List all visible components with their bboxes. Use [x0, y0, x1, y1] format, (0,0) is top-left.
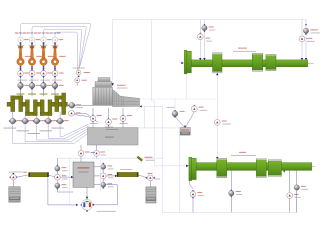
crank segment label 4	[51, 93, 59, 96]
main bearing 5 sphere	[56, 120, 58, 122]
flywheel joint circle	[69, 110, 75, 116]
flywheel (olive bar)	[62, 93, 66, 115]
chassis box	[88, 128, 139, 145]
conrod 4 big end	[51, 58, 58, 65]
adapter label 1	[17, 79, 27, 82]
wire: gas-pressure bus rails from cylinders	[21, 23, 91, 66]
adapter sphere 2	[31, 81, 33, 83]
secondary gear A	[217, 158, 227, 177]
conrod 3 (piston pin block)	[42, 46, 46, 48]
primary gear 2	[252, 53, 262, 71]
diff left column: joint circle	[55, 174, 61, 180]
engine mount 2 circle	[107, 118, 109, 120]
bearing MB3 sphere	[203, 24, 205, 26]
main bearing 2 label	[17, 129, 30, 132]
main bearing 1 label	[4, 127, 17, 130]
main bearing 1 sphere	[9, 120, 11, 122]
main bearing 1 bus wire	[13, 124, 93, 143]
label between gas circles	[47, 38, 52, 41]
DiffGear box	[73, 162, 94, 187]
gearbox bearing sphere	[167, 106, 175, 109]
flywheel label	[76, 106, 84, 109]
engine mount 3 circle	[122, 114, 124, 116]
crank segment label 2	[28, 93, 36, 96]
arrows onto primary shaft	[199, 58, 201, 60]
primary gear 1	[213, 53, 223, 73]
conrod 2 shaft	[31, 48, 34, 58]
diff left column: sphere	[56, 164, 58, 166]
wire: vertical left of diff	[69, 158, 71, 205]
diff right wires	[94, 166, 101, 168]
connector square below gas circle 4	[54, 42, 56, 44]
conrod 4 shaft	[54, 48, 57, 58]
crankshaft (olive)	[7, 96, 62, 116]
arrow into engine block	[111, 83, 114, 86]
drive shaft right joint	[138, 175, 147, 178]
flywheel bearing sphere	[68, 104, 70, 106]
conrod 1 shaft	[19, 48, 22, 58]
main bearing 2 bus wire	[25, 124, 91, 142]
engine block label	[117, 84, 126, 87]
spring joint circle	[199, 33, 201, 35]
main bearing 3 label	[28, 132, 41, 135]
wire gear mesh primary->secondary	[216, 73, 218, 120]
drive left box wire	[12, 180, 14, 187]
revolute joint circle 3	[42, 69, 44, 71]
revolute joint circle 2	[31, 69, 33, 71]
gas force circle cyl4	[52, 37, 57, 42]
secondary gear B	[256, 159, 266, 178]
primary shaft flange	[184, 50, 187, 74]
wire: vertical right of diff	[100, 158, 102, 192]
main bearing 2 stem	[24, 116, 26, 119]
main bearing 4 bus wire	[48, 124, 89, 138]
output shaft left (olive bar)	[29, 173, 49, 177]
wire joint to mounts	[75, 113, 96, 120]
bearing MB4 sphere (right)	[305, 24, 307, 26]
sec bearing MB6	[230, 170, 232, 190]
diff right column	[102, 163, 104, 165]
sec right bearing pair	[296, 170, 298, 184]
revolute joint circle 4	[54, 69, 56, 71]
cylinder unit 2 chain wire	[31, 43, 33, 97]
crank pin joint 3	[42, 66, 44, 68]
adapter sphere 3	[42, 81, 44, 83]
primary shaft labels	[238, 47, 247, 50]
chassis bottom joint circle	[96, 145, 98, 150]
cylinder unit 1 chain wire	[20, 43, 22, 97]
engine mount 1 wires	[92, 108, 94, 115]
conrod 4 (piston pin block)	[53, 46, 57, 48]
wire: bracket drop	[178, 135, 180, 212]
gas force splitter W5	[75, 78, 80, 83]
adapter label 3	[40, 79, 50, 82]
main bearing 3 sphere	[33, 120, 35, 122]
secondary shaft labels	[239, 151, 246, 154]
conrod 1 (piston pin block)	[19, 46, 23, 48]
wire: powertrain mount route (top rail)	[113, 20, 306, 84]
secondary shaft right stub	[312, 166, 316, 168]
connector square below gas circle 2	[31, 42, 33, 44]
PGB mount circle	[193, 105, 195, 107]
adapter sphere 4	[54, 81, 56, 83]
label gas force cyl3	[38, 32, 41, 35]
wire: block to gearbox route lower	[140, 105, 163, 107]
adapter label 4	[52, 79, 62, 82]
crank pin joint 2	[31, 66, 33, 68]
engine block bell housing wedge	[113, 90, 140, 107]
wires into bracket	[175, 117, 185, 127]
cylinder unit 3 chain wire	[43, 43, 45, 97]
main bearing 5 bus wire	[60, 124, 89, 137]
drive right box	[146, 187, 156, 203]
crank segment label 1	[17, 93, 25, 96]
main bearing 3 bus wire	[37, 124, 91, 140]
gas force circle cyl3	[41, 37, 46, 42]
adapter label 2	[29, 79, 39, 82]
cylinder unit 4 chain wire	[54, 43, 56, 97]
main bearing 1 stem	[12, 112, 14, 118]
output shaft left label	[9, 171, 23, 174]
diff left column: sphere2	[55, 183, 60, 188]
wire flange down	[186, 74, 188, 99]
output shaft right (olive bar)	[117, 172, 138, 176]
label between gas circles	[24, 38, 29, 41]
main bearing 4 label	[40, 129, 53, 132]
wire: engine to secondary-shaft route	[152, 20, 189, 166]
main bearing 3 stem	[36, 116, 38, 119]
bracket box	[180, 128, 190, 136]
primary shaft input arrow	[181, 62, 183, 64]
conrod 1 big end	[17, 58, 24, 65]
gas force circle cyl2	[29, 37, 34, 42]
primary shaft right stub	[308, 62, 314, 64]
engine mount 1 label	[90, 122, 98, 125]
engine mount 1 circle	[92, 114, 94, 116]
wire: chassis to bracket	[138, 127, 180, 129]
gas force circle cyl1	[18, 37, 23, 42]
drive right box wire	[149, 181, 151, 187]
adapter sphere 1	[19, 81, 21, 83]
diff left wires	[56, 158, 58, 166]
wire: bottom rail	[162, 106, 296, 212]
main bearing 4 stem	[47, 116, 49, 119]
connector square below gas circle 1	[19, 42, 21, 44]
main bearing 5 stem	[59, 112, 61, 118]
primary gear 3	[266, 54, 276, 70]
label gas force cyl2	[26, 32, 29, 35]
conrod 3 big end	[40, 58, 47, 65]
label between gas circles	[36, 38, 41, 41]
wire: block to gearbox route upper	[140, 98, 218, 100]
gas force splitter label	[73, 67, 86, 70]
main bearing 5 label	[52, 127, 65, 130]
secondary gear C	[268, 160, 281, 177]
mount joint olive diagonal	[137, 156, 143, 161]
label gas force cyl4	[49, 32, 52, 35]
wire: left drop pair to primary shaft	[199, 20, 201, 34]
engine mount 2 label	[105, 126, 113, 129]
connector square below gas circle 3	[42, 42, 44, 44]
crank pin joint 4	[54, 66, 56, 68]
differential gear icon	[86, 187, 88, 199]
gas force splitter W4	[76, 70, 81, 75]
wire: diff rail	[57, 157, 162, 159]
engine block top ledges	[98, 78, 110, 82]
conrod 3 shaft	[42, 48, 45, 58]
secondary shaft flange	[189, 157, 192, 180]
primary shaft body	[191, 60, 307, 67]
secondary shaft body	[196, 163, 312, 171]
engine mount 3 label	[120, 122, 128, 125]
engine mount 3 wires	[122, 108, 124, 115]
diff top joint circle	[80, 145, 82, 150]
main bearing 4 sphere	[44, 120, 46, 122]
crank segment label 3	[40, 93, 48, 96]
engine block ribbed body	[93, 87, 113, 105]
engine mount 2 wires	[108, 108, 110, 119]
drive shaft left joint	[12, 173, 14, 175]
wire: right drop to primary shaft	[305, 20, 307, 28]
crank pin joint 1	[19, 66, 21, 68]
label between gas circles	[59, 38, 64, 41]
drive left box	[9, 187, 20, 202]
wire corner to bearing	[174, 99, 176, 111]
conrod 2 (piston pin block)	[30, 46, 34, 48]
wire flywheel to block	[75, 104, 93, 106]
conrod 2 big end	[28, 58, 35, 65]
spring joint circle (right)	[299, 36, 305, 42]
revolute joint circle 1	[19, 69, 21, 71]
main bearing 2 sphere	[21, 120, 23, 122]
sec bearing joint left	[190, 181, 194, 189]
gear mesh mount circle	[214, 120, 220, 126]
differential gear label	[97, 210, 117, 213]
label gas force cyl1	[15, 32, 18, 35]
